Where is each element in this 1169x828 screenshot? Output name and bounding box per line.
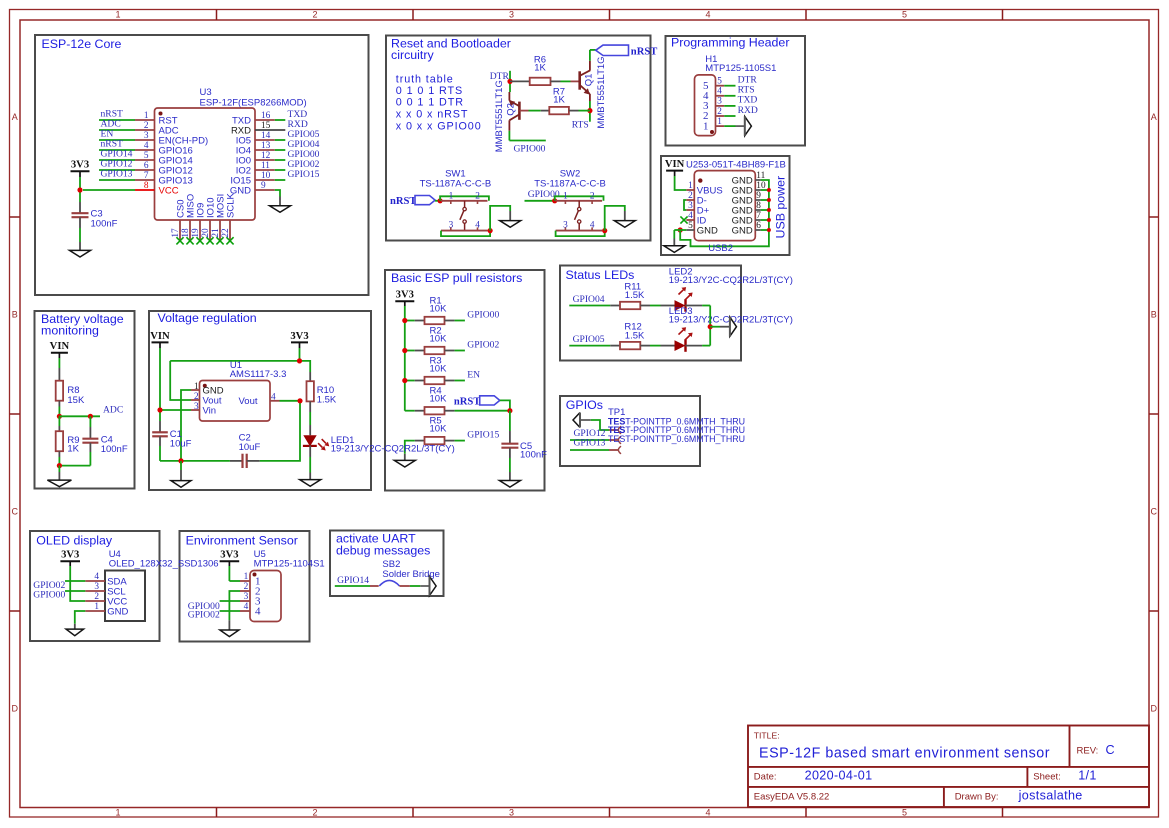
USB2 pin 3 (D+) [686, 209, 694, 211]
ground at regulator [180, 461, 182, 470]
svg-text:GPIO00: GPIO00 [514, 143, 546, 154]
wire USB2 GND pin 9 to bus with junction [761, 199, 769, 201]
svg-text:U253-051T-4BH89-F1B: U253-051T-4BH89-F1B [686, 160, 786, 171]
svg-text:TEST-POINTTP_0.6MMTH_THRU: TEST-POINTTP_0.6MMTH_THRU [608, 434, 745, 444]
svg-text:5: 5 [144, 151, 149, 161]
LED LED2 19-213/Y2C-CQ2R2L/3T(CY) [661, 305, 675, 307]
wire LED1 to ground [309, 445, 311, 457]
junction ground rail [178, 458, 183, 463]
svg-text:10: 10 [261, 171, 271, 181]
svg-text:GND: GND [697, 225, 718, 236]
U3 pin 12 (IO0) right side [255, 159, 275, 161]
wire USB2 GND pin 10 to bus with junction [761, 189, 769, 191]
wire LED cathodes to ground [709, 306, 711, 346]
wire GND pin to ground [75, 611, 86, 624]
svg-text:2020-04-01: 2020-04-01 [805, 768, 873, 782]
regulator U1 pin-1 marker [203, 384, 207, 388]
svg-text:19: 19 [191, 228, 201, 238]
svg-text:10uF: 10uF [239, 442, 261, 453]
USB2 pin 8 (GND) [755, 209, 761, 211]
resistor R9 1K [58, 416, 60, 426]
junction at USB2 pin 5 GND [678, 227, 683, 232]
svg-text:2: 2 [688, 191, 693, 201]
svg-text:1: 1 [244, 572, 249, 582]
wire pin4 to output node [280, 400, 301, 402]
svg-text:ESP-12F based smart environmen: ESP-12F based smart environment sensor [759, 746, 1050, 762]
junction RTS node [587, 108, 592, 113]
svg-text:1: 1 [115, 10, 120, 20]
svg-text:SCLK: SCLK [225, 193, 236, 218]
wire GPIO02 to SDA [65, 580, 85, 582]
section box: Basic ESP pull resistors [385, 270, 545, 491]
svg-text:1: 1 [688, 181, 693, 191]
header H1 pin-1 marker [710, 130, 714, 134]
USB2 pin 11 (GND) [755, 179, 761, 181]
resistor R2 10K [405, 350, 415, 352]
svg-text:17: 17 [171, 228, 181, 238]
svg-text:GPIO05: GPIO05 [573, 334, 605, 345]
switch lever [578, 201, 580, 208]
USB2 pin 6 (GND) [755, 229, 761, 231]
wire GPIO14 to SB2 [335, 585, 370, 587]
svg-text:OLED display: OLED display [36, 534, 113, 548]
svg-text:B: B [1151, 310, 1157, 320]
svg-text:truth table: truth table [396, 74, 454, 86]
U3 pin 4 (GPIO16) wire and net label nRST [99, 149, 135, 151]
wire loop D- to D+ [684, 200, 686, 210]
svg-text:1.5K: 1.5K [625, 290, 645, 301]
frame column ticks bottom [216, 808, 218, 818]
svg-text:MMBT5551LT1G: MMBT5551LT1G [596, 56, 607, 128]
svg-text:D: D [1150, 704, 1157, 714]
ground at sensor [228, 620, 230, 630]
wire USB2 GND pin 6 to bus with junction [761, 229, 769, 231]
U4 pin 4 (SDA) [85, 580, 105, 582]
junction ADC divider node [57, 414, 62, 419]
resistor R4 10K [405, 410, 415, 412]
wire arrow to TP1 [591, 420, 609, 430]
svg-text:3: 3 [194, 402, 199, 412]
USB2 pin 10 (GND) [755, 189, 761, 191]
U3 bottom pin 20 (IO10) no-connect [209, 220, 211, 241]
svg-text:100nF: 100nF [520, 449, 547, 460]
connector USB2 pin-1 marker [698, 178, 702, 182]
svg-text:19-213/Y2C-CQ2R2L/3T(CY): 19-213/Y2C-CQ2R2L/3T(CY) [331, 444, 455, 455]
svg-text:MMBT5551LT1G: MMBT5551LT1G [494, 80, 505, 152]
svg-text:1: 1 [194, 382, 199, 392]
svg-text:5: 5 [902, 807, 907, 817]
U3 pin 14 (IO5) right side [255, 139, 275, 141]
junction at C4 top [88, 414, 93, 419]
svg-text:GPIO15: GPIO15 [288, 169, 320, 180]
USB2 pin 5 (GND) [686, 229, 694, 231]
svg-text:3: 3 [449, 221, 454, 231]
sensor U5 pin-1 marker [253, 573, 257, 577]
svg-text:MTP125-1105S1: MTP125-1105S1 [705, 63, 776, 74]
U4 pin 2 (VCC) [85, 600, 105, 602]
svg-text:1.5K: 1.5K [317, 395, 337, 406]
svg-text:3: 3 [563, 221, 568, 231]
junction 3V3 rail [297, 358, 302, 363]
wire switch to ground [605, 206, 625, 231]
transistor Q1 MMBT5551LT1G [578, 71, 581, 89]
resistor R7 1K [519, 110, 528, 112]
wire GND bus around USB2 [680, 180, 769, 246]
wire R4 to junction [455, 410, 510, 412]
resistor R6 1K [510, 80, 530, 82]
svg-text:16: 16 [261, 111, 271, 121]
section box: Voltage regulation [149, 311, 371, 490]
svg-text:VIN: VIN [150, 331, 170, 342]
U3 pin 3 (EN(CH-PD)) wire and net label EN [99, 139, 135, 141]
svg-text:1K: 1K [553, 94, 565, 105]
USB2 pin 9 (GND) [755, 199, 761, 201]
svg-text:C: C [1106, 743, 1115, 757]
svg-text:GPIO00: GPIO00 [467, 309, 499, 320]
wire SB2 to ground [410, 585, 420, 587]
resistor R8 15K [58, 368, 60, 381]
svg-text:4: 4 [590, 221, 595, 231]
U3 pin 7 (GPIO13) wire and net label GPIO13 [99, 179, 135, 181]
svg-text:3: 3 [144, 131, 149, 141]
wire 3V3 to VCC pin [70, 566, 85, 601]
svg-text:1: 1 [703, 120, 709, 132]
svg-text:4: 4 [255, 605, 261, 617]
svg-text:4: 4 [94, 572, 99, 582]
svg-text:5: 5 [902, 10, 907, 20]
svg-text:4: 4 [688, 211, 693, 221]
svg-text:2: 2 [94, 592, 99, 602]
no-connect X at USB2 pin 4 (ID) [680, 216, 687, 223]
svg-text:18: 18 [181, 228, 191, 238]
wire 3V3 to U5 pin 1 [229, 580, 240, 582]
U4 pin 1 (GND) [85, 610, 105, 612]
U3 pin 16 (TXD) right side [255, 119, 275, 121]
test point TP2 hook [609, 439, 619, 441]
wire U1 pin1 GND down to ground rail [181, 390, 191, 461]
module U3 body [155, 108, 256, 220]
junction divider bottom [57, 463, 62, 468]
U3 bottom pin 22 (SCLK) no-connect [229, 220, 231, 241]
svg-text:3V3: 3V3 [396, 290, 414, 301]
title block outline [748, 726, 1149, 808]
wire R6 to Q1 base [561, 80, 571, 82]
ground below C5 [509, 472, 511, 481]
capacitor C5 100nF [509, 411, 511, 431]
svg-text:GND: GND [107, 606, 128, 617]
resistor R12 1.5K [610, 345, 620, 347]
svg-text:15K: 15K [67, 395, 85, 406]
wire Q2 collector to GPIO00 [508, 131, 510, 141]
solder bridge SB2 symbol [370, 585, 379, 587]
wire USB2 GND pin 7 to bus with junction [761, 219, 769, 221]
svg-text:10uF: 10uF [170, 439, 192, 450]
title block REV separator [1069, 726, 1071, 767]
regulator U1 body [200, 381, 271, 422]
svg-text:6: 6 [144, 161, 149, 171]
svg-text:Vin: Vin [203, 405, 217, 416]
section box: Battery voltage monitoring [35, 311, 135, 489]
svg-text:1: 1 [449, 192, 454, 202]
wire GPIO00 to SCL [65, 590, 85, 592]
wire loop under switch bottom [556, 231, 605, 237]
capacitor C4 100nF [89, 416, 91, 427]
svg-text:TITLE:: TITLE: [754, 730, 780, 740]
port arrow (GPIOs) [573, 413, 580, 428]
svg-text:ESP-12F(ESP8266MOD): ESP-12F(ESP8266MOD) [200, 98, 307, 109]
junction nRST node [507, 408, 512, 413]
U3 pin 9 GND wire [275, 190, 280, 197]
U3 pin 10 (IO15) right side [255, 179, 275, 181]
ground at USB2 pin 5 [673, 239, 675, 246]
svg-text:B: B [12, 310, 18, 320]
wire R5 to ground [405, 441, 415, 454]
U3 pin 1 (RST) wire and net label nRST [99, 119, 135, 121]
svg-text:13: 13 [261, 141, 271, 151]
svg-text:USB2: USB2 [708, 243, 733, 254]
U3 pin 13 (IO4) right side [255, 149, 275, 151]
svg-text:GPIO02: GPIO02 [467, 339, 499, 350]
svg-text:3V3: 3V3 [220, 550, 238, 561]
svg-text:TS-1187A-C-C-B: TS-1187A-C-C-B [420, 178, 492, 189]
svg-text:19-213/Y2C-CQ2R2L/3T(CY): 19-213/Y2C-CQ2R2L/3T(CY) [669, 275, 793, 286]
wire C2 to output node [260, 401, 300, 461]
junction at switch pin 1 [438, 198, 443, 203]
svg-text:1: 1 [144, 111, 149, 121]
U1 pin 2 Vout [191, 399, 200, 401]
wire loop over switch top [555, 196, 604, 201]
svg-text:monitoring: monitoring [41, 324, 99, 338]
svg-text:11: 11 [261, 161, 270, 171]
wire GPIO00 to U5 pin 3 [220, 600, 240, 602]
svg-text:4: 4 [144, 141, 149, 151]
svg-text:3: 3 [509, 10, 514, 20]
svg-text:3: 3 [509, 807, 514, 817]
svg-text:GPIO04: GPIO04 [573, 294, 605, 305]
wire ADC node [59, 415, 100, 417]
svg-text:22: 22 [221, 228, 231, 238]
svg-text:GPIO13: GPIO13 [574, 438, 606, 449]
title block DrawnBy separator [943, 787, 945, 807]
wire C4 bottom to divider bottom [59, 465, 90, 467]
U3 pin 8 VCC wire from 3V3 rail [83, 189, 135, 191]
wire 3V3 top rail [170, 361, 310, 372]
U1 pin 3 Vin [191, 409, 200, 411]
svg-text:4: 4 [705, 807, 710, 817]
U3 bottom pin 19 (IO9) no-connect [199, 220, 201, 241]
svg-text:10K: 10K [430, 423, 448, 434]
ground at U3 pin 9 [279, 197, 281, 206]
svg-text:1: 1 [563, 192, 568, 202]
svg-text:3V3: 3V3 [290, 331, 308, 342]
svg-text:Environment Sensor: Environment Sensor [186, 534, 298, 548]
wire ground rail [160, 460, 230, 462]
svg-text:C: C [1150, 507, 1157, 517]
svg-text:10K: 10K [430, 333, 448, 344]
resistor R3 10K [405, 380, 415, 382]
svg-text:TS-1187A-C-C-B: TS-1187A-C-C-B [534, 178, 606, 189]
test point TP3 hook [609, 449, 619, 451]
junction at switch pin 1 [552, 198, 557, 203]
svg-text:2: 2 [590, 192, 595, 202]
wire VIN vertical [159, 348, 161, 421]
svg-text:1: 1 [94, 602, 99, 612]
resistor R5 10K [415, 440, 425, 442]
junction on 3V3 rail at R3 [402, 378, 407, 383]
U5 pin 2 [240, 590, 250, 592]
resistor R10 1.5K [309, 372, 311, 381]
wire Q1 collector to nRST port [589, 50, 591, 61]
svg-text:2: 2 [194, 392, 199, 402]
svg-text:6: 6 [756, 221, 761, 231]
U5 pin 1 [240, 580, 250, 582]
USB2 pin 2 (D-) [686, 199, 694, 201]
wire GND pin5 to ground [674, 229, 686, 231]
switch top bar pins 1-2 [441, 200, 488, 202]
svg-text:14: 14 [261, 131, 271, 141]
svg-text:GPIO15: GPIO15 [467, 429, 499, 440]
svg-text:EasyEDA V5.8.22: EasyEDA V5.8.22 [754, 791, 830, 802]
capacitor C2 10uF [230, 460, 243, 462]
svg-text:VCC: VCC [159, 185, 179, 196]
svg-text:nRST: nRST [454, 397, 481, 408]
ground below C3 [79, 242, 81, 250]
svg-text:2: 2 [475, 192, 480, 202]
svg-text:Sheet:: Sheet: [1033, 771, 1060, 782]
svg-text:3V3: 3V3 [71, 160, 89, 171]
section box: activate UART debug messages [330, 531, 444, 597]
svg-text:C: C [11, 507, 18, 517]
capacitor C3 [79, 202, 81, 213]
switch bottom bar pins 3-4 [441, 230, 488, 232]
svg-text:10K: 10K [430, 363, 448, 374]
resistor R1 10K [405, 320, 415, 322]
svg-text:U3: U3 [200, 87, 212, 98]
section box: GPIOs [560, 396, 700, 466]
frame column ticks top [216, 10, 218, 21]
ground below LED1 [309, 473, 311, 480]
section box: Environment Sensor [180, 531, 310, 642]
svg-text:RXD: RXD [738, 105, 758, 116]
connector USB2 body [694, 171, 755, 241]
svg-text:Programming Header: Programming Header [671, 36, 789, 50]
switch bottom bar pins 3-4 [556, 230, 603, 232]
wire U5 pin 2 to ground [229, 591, 240, 620]
section box: USB power [661, 156, 790, 255]
svg-text:7: 7 [756, 211, 761, 221]
svg-text:nRST: nRST [390, 196, 417, 207]
svg-text:GPIO13: GPIO13 [101, 169, 133, 180]
svg-text:debug messages: debug messages [336, 544, 430, 558]
svg-text:D: D [11, 704, 18, 714]
svg-text:A: A [12, 112, 18, 122]
wire USB2 GND pin 8 to bus with junction [761, 209, 769, 211]
module U3 pin-1 marker [159, 112, 163, 116]
svg-text:Voltage regulation: Voltage regulation [158, 311, 257, 325]
wire 3V3 to VCC rail [79, 171, 81, 177]
svg-text:ESP-12e Core: ESP-12e Core [42, 37, 122, 51]
svg-text:0 1 0 1 RTS: 0 1 0 1 RTS [396, 85, 463, 97]
junction LED ground node [708, 324, 713, 329]
U3 pin 5 (GPIO14) wire and net label GPIO14 [99, 159, 135, 161]
U3 bottom pin 18 (MISO) no-connect [189, 220, 191, 241]
U3 bottom pin 21 (MOSI) no-connect [219, 220, 221, 241]
svg-text:Basic ESP pull resistors: Basic ESP pull resistors [391, 271, 522, 285]
U3 bottom pin 17 (CS0) no-connect [179, 220, 181, 241]
transistor Q2 MMBT5551LT1G [518, 102, 521, 120]
ground at status LEDs (sideways) [720, 326, 730, 328]
svg-text:2: 2 [312, 807, 317, 817]
wire GPIO02 to U5 pin 4 [220, 610, 240, 612]
capacitor C1 10uF [159, 421, 161, 432]
svg-text:3: 3 [244, 592, 249, 602]
svg-text:VIN: VIN [665, 159, 685, 170]
wire nRST port to R4 node [500, 400, 510, 410]
section box: Programming Header [666, 36, 806, 146]
svg-text:12: 12 [261, 151, 271, 161]
svg-text:15: 15 [261, 121, 271, 131]
test point TP1 hook [609, 429, 619, 431]
svg-text:2: 2 [312, 10, 317, 20]
svg-text:GPIOs: GPIOs [566, 398, 603, 412]
svg-text:circuitry: circuitry [391, 48, 434, 62]
svg-text:20: 20 [201, 228, 211, 238]
svg-text:9: 9 [261, 181, 266, 191]
junction at switch pin 4 [488, 228, 493, 233]
svg-text:Vout: Vout [238, 396, 257, 407]
svg-text:ADC: ADC [103, 405, 123, 416]
U3 pin 9 (GND) right side [255, 189, 275, 191]
svg-text:Date:: Date: [754, 771, 777, 782]
switch top bar pins 1-2 [556, 200, 603, 202]
svg-text:nRST: nRST [631, 47, 658, 58]
svg-text:OLED_128X32_SSD1306: OLED_128X32_SSD1306 [109, 559, 219, 570]
wire VBUS to VIN flag [675, 176, 687, 190]
svg-text:5: 5 [688, 221, 693, 231]
frame row ticks right [1149, 216, 1159, 218]
ground below R5 [404, 454, 406, 461]
wire H1 pin1 to ground [736, 125, 745, 127]
svg-text:EN: EN [467, 369, 480, 380]
svg-text:4: 4 [705, 10, 710, 20]
title block Sheet separator [1026, 767, 1028, 787]
svg-text:3V3: 3V3 [61, 550, 79, 561]
svg-text:Drawn By:: Drawn By: [955, 791, 999, 802]
svg-text:x 0 x x GPIO00: x 0 x x GPIO00 [396, 121, 482, 133]
svg-text:100nF: 100nF [101, 444, 128, 455]
svg-text:A: A [1151, 112, 1157, 122]
svg-text:3: 3 [688, 201, 693, 211]
switch lever [464, 201, 466, 208]
svg-text:2: 2 [244, 582, 249, 592]
svg-text:1.5K: 1.5K [625, 330, 645, 341]
USB2 pin 1 (VBUS) [686, 189, 694, 191]
junction output node [297, 398, 302, 403]
frame row ticks left [10, 216, 21, 218]
svg-text:100nF: 100nF [91, 218, 118, 229]
svg-text:8: 8 [144, 181, 149, 191]
svg-text:GPIO02: GPIO02 [188, 610, 220, 621]
svg-text:Q1: Q1 [583, 74, 594, 87]
LED LED3 19-213/Y2C-CQ2R2L/3T(CY) [661, 345, 675, 347]
USB2 pin 7 (GND) [755, 219, 761, 221]
wire loop under switch bottom [441, 231, 490, 237]
U3 pin 2 (ADC) wire and net label ADC [99, 129, 135, 131]
section box: ESP-12e Core [35, 35, 369, 295]
svg-text:jostsalathe: jostsalathe [1018, 788, 1083, 802]
ground at OLED [74, 624, 76, 629]
USB2 pin 4 (ID) [686, 219, 694, 221]
